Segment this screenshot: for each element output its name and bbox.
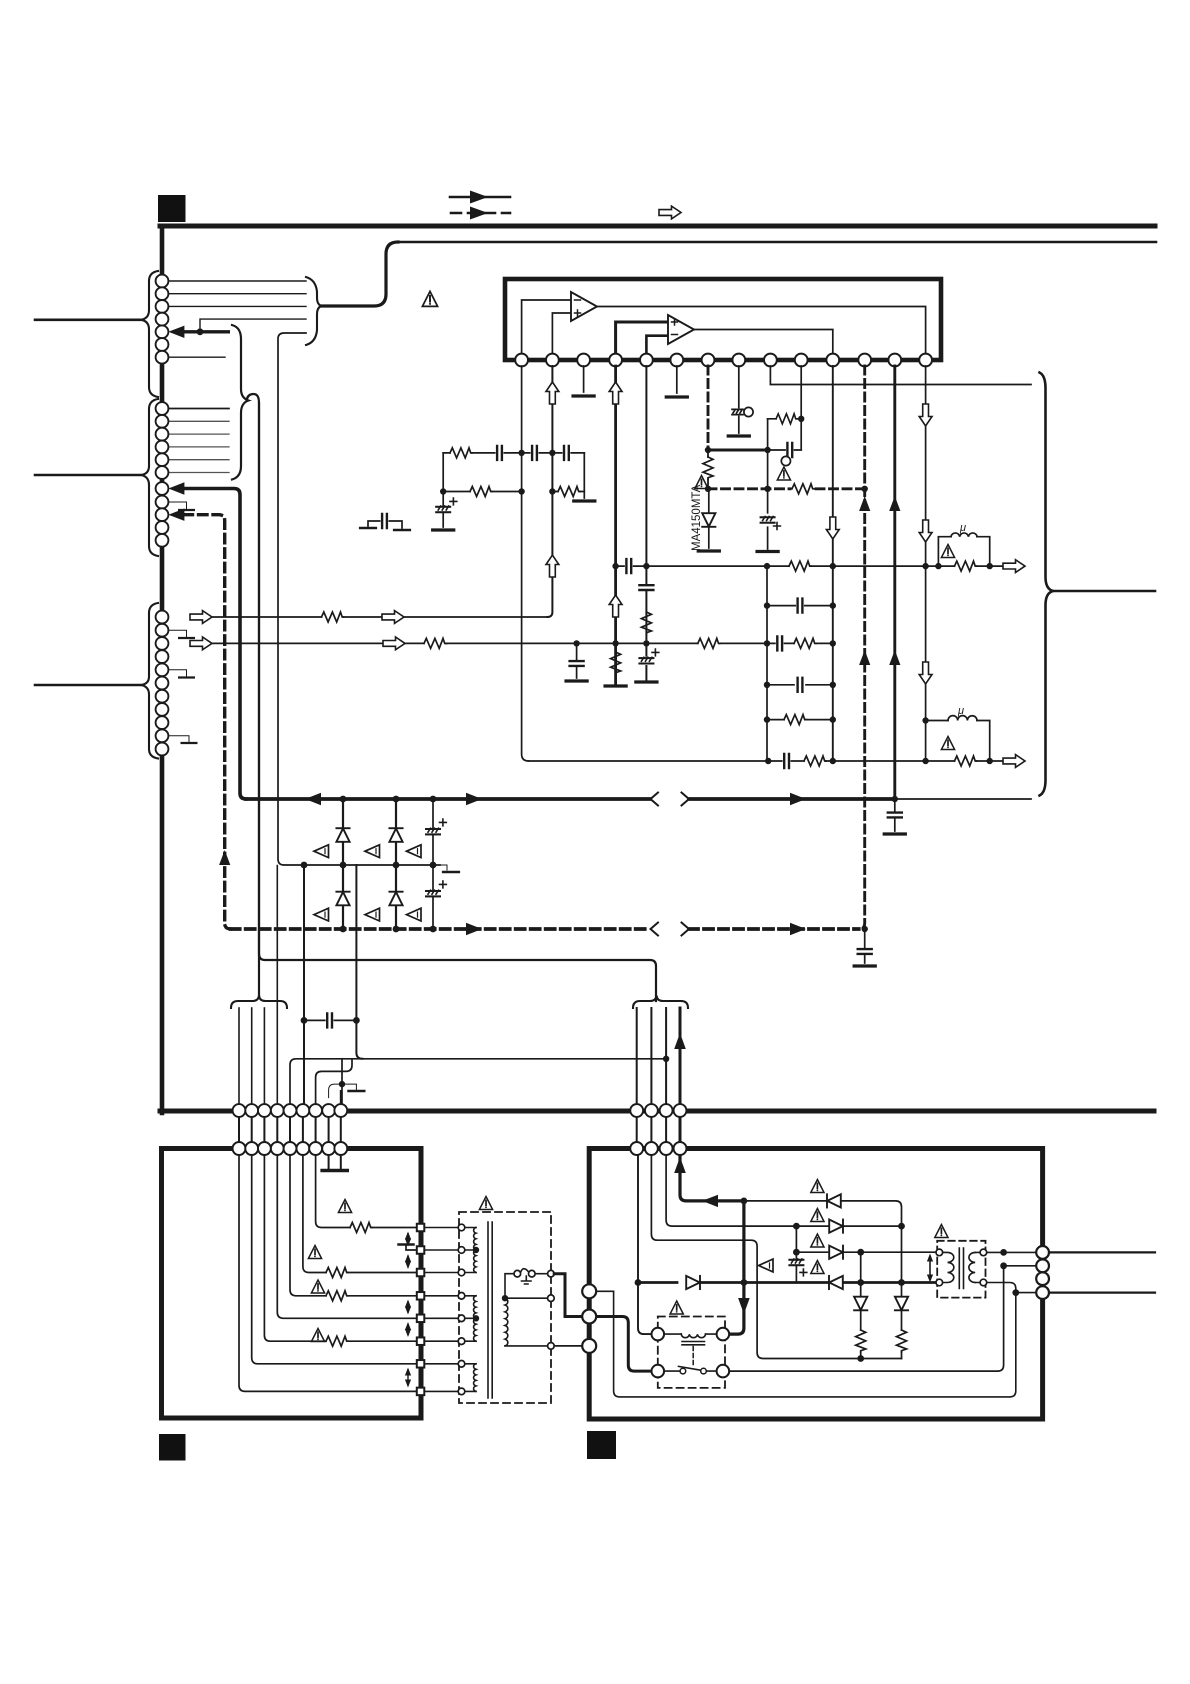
svg-text:μ: μ <box>957 705 964 717</box>
svg-text:μ: μ <box>959 522 966 534</box>
svg-text:MA4150MTA: MA4150MTA <box>691 484 703 551</box>
